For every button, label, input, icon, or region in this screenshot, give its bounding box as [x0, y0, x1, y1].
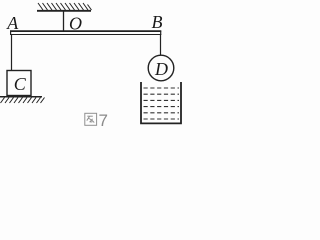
container walls	[141, 82, 181, 123]
caption 图 glyph	[85, 113, 97, 125]
label C	[14, 74, 27, 94]
ground line	[0, 96, 42, 98]
label B	[152, 12, 163, 32]
label O	[69, 14, 82, 34]
block C	[7, 71, 31, 96]
ceiling line	[37, 10, 91, 12]
svg-text:A: A	[6, 13, 19, 33]
beam AB	[10, 31, 161, 36]
left rope A to C	[11, 34, 13, 71]
caption 7	[99, 111, 108, 130]
support rod O	[63, 11, 65, 31]
svg-text:B: B	[152, 12, 163, 32]
right rope B to D	[160, 34, 162, 56]
ball D	[148, 55, 174, 81]
water dashed lines	[144, 88, 180, 119]
ceiling hatch	[38, 3, 92, 10]
svg-text:C: C	[14, 74, 27, 94]
label D	[154, 59, 168, 79]
label A	[6, 13, 19, 33]
svg-text:D: D	[154, 59, 168, 79]
ground hatch	[1, 98, 45, 104]
svg-text:7: 7	[99, 111, 108, 130]
